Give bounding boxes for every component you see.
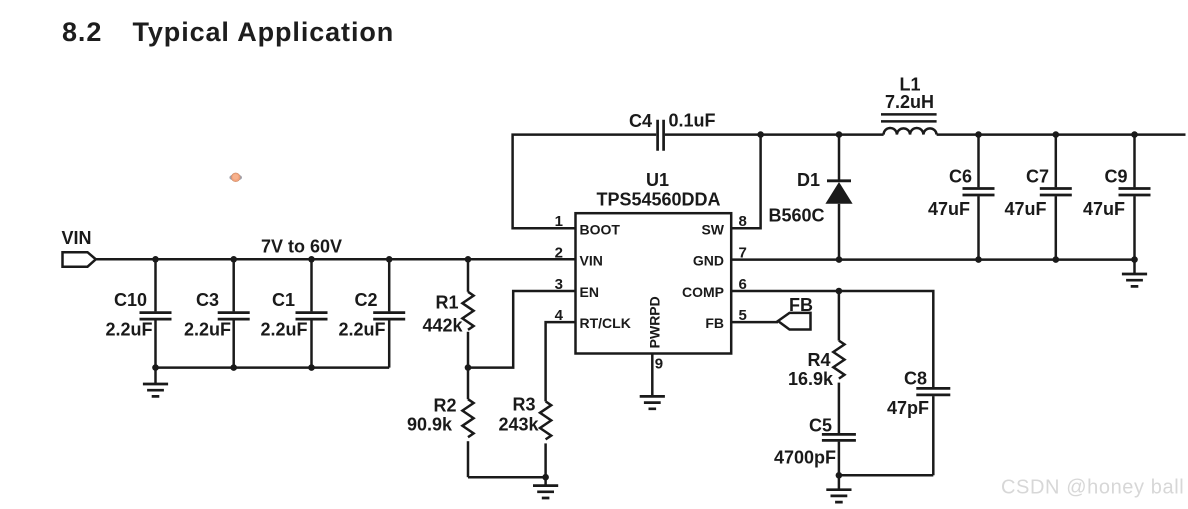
svg-text:R4: R4	[807, 350, 830, 370]
svg-text:4700pF: 4700pF	[774, 448, 836, 468]
pin PWRPD (rotated)	[647, 296, 663, 348]
wire comp bottom	[839, 474, 933, 477]
svg-text:COMP: COMP	[682, 284, 724, 300]
label C1 2.2uF	[260, 290, 307, 340]
capacitor C4	[658, 120, 664, 151]
wire PWRPD pin 9 stub	[651, 354, 654, 397]
resistor R3	[540, 401, 551, 477]
label U1	[646, 170, 669, 190]
junction dots on input cap bottom rail	[152, 364, 315, 371]
svg-text:U1: U1	[646, 170, 669, 190]
svg-text:4: 4	[555, 307, 564, 324]
svg-text:16.9k: 16.9k	[788, 369, 834, 389]
wire RT/CLK net	[546, 322, 576, 401]
node C5-C8 bottom junction	[836, 472, 843, 479]
junction dots on VIN rail	[152, 256, 471, 263]
node COMP-R4 junction	[836, 288, 843, 295]
resistor R2	[462, 368, 473, 478]
label R3 243k	[498, 395, 539, 435]
label D1 B560C	[768, 170, 824, 226]
pin number 2	[555, 244, 563, 261]
svg-text:B560C: B560C	[768, 206, 824, 226]
svg-text:FB: FB	[789, 295, 813, 315]
pin number 7	[739, 244, 747, 261]
svg-text:47uF: 47uF	[1083, 199, 1125, 219]
op-amp U1 TPS54560DDA box	[576, 213, 732, 353]
wire R2-R3 bottom	[468, 476, 546, 479]
wire GND rail	[731, 258, 1134, 261]
svg-text:7V to 60V: 7V to 60V	[261, 237, 342, 257]
label TPS54560DDA	[596, 190, 720, 210]
svg-text:47uF: 47uF	[1004, 199, 1046, 219]
svg-text:2: 2	[555, 244, 563, 261]
svg-text:D1: D1	[797, 170, 820, 190]
capacitor C3	[218, 259, 250, 367]
svg-text:R2: R2	[433, 396, 456, 416]
pin number 5	[739, 307, 747, 324]
svg-text:C7: C7	[1026, 167, 1049, 187]
inductor L1	[881, 114, 937, 134]
wire EN net	[468, 291, 576, 368]
label C2 2.2uF	[338, 290, 385, 340]
svg-text:R3: R3	[512, 395, 535, 415]
node R3 bottom junction	[542, 474, 549, 481]
capacitor C8	[916, 388, 950, 475]
watermark CSDN @honey ball	[1001, 477, 1184, 499]
svg-text:C2: C2	[354, 290, 377, 310]
pin EN	[580, 284, 599, 300]
ground at C5	[826, 475, 851, 502]
svg-text:TPS54560DDA: TPS54560DDA	[596, 190, 720, 210]
pin number 6	[739, 276, 747, 293]
svg-text:R1: R1	[435, 293, 458, 313]
junction dots on GND rail	[836, 256, 1138, 263]
label C7 47uF	[1004, 167, 1049, 220]
stray pink dot artifact	[229, 173, 242, 182]
svg-text:CSDN @honey ball: CSDN @honey ball	[1001, 477, 1184, 499]
svg-text:47uF: 47uF	[928, 199, 970, 219]
svg-text:C6: C6	[949, 167, 972, 187]
svg-text:90.9k: 90.9k	[407, 415, 453, 435]
node label VIN	[62, 228, 92, 248]
junction dots on top rail	[757, 131, 1137, 138]
label R1 442k	[422, 293, 463, 336]
svg-text:442k: 442k	[422, 316, 463, 336]
svg-text:2.2uF: 2.2uF	[338, 320, 385, 340]
wire input cap bottom rail	[156, 366, 390, 369]
label C6 47uF	[928, 167, 972, 220]
pin FB	[705, 315, 724, 331]
svg-text:Typical Application: Typical Application	[133, 17, 395, 47]
pin GND	[693, 253, 724, 269]
wire VIN rail	[96, 258, 576, 261]
wire output rail	[937, 133, 1186, 136]
svg-text:9: 9	[655, 356, 663, 373]
svg-text:C4: C4	[629, 111, 652, 131]
ground at C9	[1122, 260, 1147, 287]
svg-text:BOOT: BOOT	[580, 221, 621, 237]
node FB terminal	[778, 313, 811, 330]
svg-text:2.2uF: 2.2uF	[260, 320, 307, 340]
svg-text:7.2uH: 7.2uH	[885, 92, 934, 112]
svg-text:PWRPD: PWRPD	[647, 296, 663, 348]
pin number 1	[555, 213, 563, 230]
capacitor C10	[140, 259, 172, 367]
pin VIN	[580, 253, 603, 269]
label C8 47pF	[887, 369, 929, 419]
svg-text:RT/CLK: RT/CLK	[580, 315, 631, 331]
pin number 3	[555, 276, 563, 293]
node R1-R2-EN junction	[465, 364, 472, 371]
capacitor C9	[1119, 135, 1151, 260]
svg-text:C10: C10	[114, 290, 147, 310]
svg-text:243k: 243k	[498, 415, 539, 435]
svg-text:C5: C5	[809, 416, 832, 436]
svg-text:C3: C3	[196, 290, 219, 310]
pin COMP	[682, 284, 724, 300]
capacitor C2	[373, 259, 405, 367]
svg-text:SW: SW	[701, 221, 724, 237]
ground at input caps	[143, 368, 168, 397]
wire SW pin riser	[731, 135, 760, 229]
svg-text:0.1uF: 0.1uF	[669, 111, 716, 131]
label R4 16.9k	[788, 350, 834, 389]
wire FB pin stub	[731, 321, 778, 324]
pin BOOT	[580, 221, 621, 237]
svg-text:C8: C8	[904, 369, 927, 389]
wire C4 to SW junction and top rail	[665, 133, 884, 136]
capacitor C7	[1040, 135, 1072, 260]
net label 7V to 60V	[261, 237, 342, 257]
resistor R1	[462, 259, 473, 367]
node VIN terminal	[63, 252, 96, 267]
wire BOOT net	[513, 135, 657, 229]
wire COMP net	[731, 291, 933, 387]
svg-text:2.2uF: 2.2uF	[184, 320, 231, 340]
svg-text:FB: FB	[705, 315, 724, 331]
pin number 9	[655, 356, 663, 373]
svg-text:EN: EN	[580, 284, 599, 300]
heading 8.2 Typical Application	[62, 17, 394, 47]
ground at R3	[533, 477, 558, 498]
svg-text:3: 3	[555, 276, 563, 293]
resistor R4	[833, 291, 844, 433]
capacitor C1	[296, 259, 328, 367]
svg-text:2.2uF: 2.2uF	[105, 320, 152, 340]
diode D1	[825, 135, 852, 260]
pin number 4	[555, 307, 564, 324]
label C4 0.1uF	[629, 111, 716, 132]
label L1 7.2uH	[885, 75, 934, 113]
svg-text:VIN: VIN	[580, 253, 603, 269]
pin RT/CLK	[580, 315, 631, 331]
label C5 4700pF	[774, 416, 836, 468]
pin number 8	[739, 213, 747, 230]
svg-text:C1: C1	[272, 290, 295, 310]
svg-text:8.2: 8.2	[62, 17, 102, 47]
label C3 2.2uF	[184, 290, 231, 340]
label R2 90.9k	[407, 396, 457, 435]
capacitor C5	[822, 434, 856, 475]
svg-text:C9: C9	[1104, 167, 1127, 187]
label C10 2.2uF	[105, 290, 152, 340]
pin SW	[701, 221, 724, 237]
svg-text:VIN: VIN	[62, 228, 92, 248]
capacitor C6	[963, 135, 995, 260]
ground at pin 9	[640, 396, 665, 409]
label C9 47uF	[1083, 167, 1128, 220]
svg-text:GND: GND	[693, 253, 724, 269]
node label FB	[789, 295, 813, 315]
svg-text:47pF: 47pF	[887, 398, 929, 418]
